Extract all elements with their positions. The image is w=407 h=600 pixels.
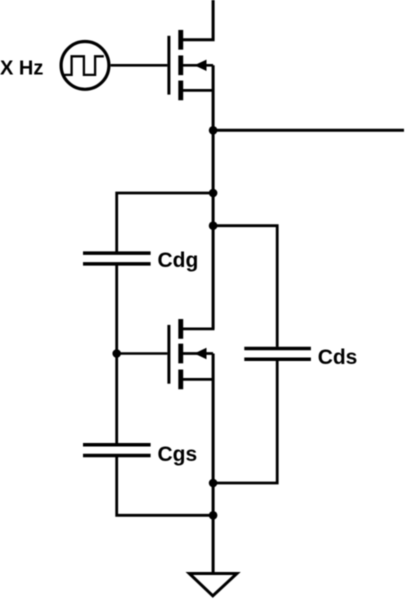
capacitor Cdg: [83, 253, 151, 264]
wire supply rail (top edge down to M1 drain corner): [181, 0, 213, 40]
ground: [189, 574, 237, 596]
node drain-Cdg junction: [209, 189, 218, 198]
wire Cdg bottom to Cgs top (left vertical): [115, 264, 118, 445]
node Cds-source junction: [209, 479, 218, 488]
node Cgs-source junction: [209, 511, 218, 520]
wire Cds bottom to source node: [213, 359, 277, 483]
wire Cgs bottom to source node: [117, 456, 213, 516]
capacitor Cgs: [83, 445, 151, 456]
wire right branch top (node to Cds top): [213, 226, 277, 347]
pulse source V1: [61, 42, 109, 90]
wire output node down to M2 drain: [212, 130, 215, 329]
node drain-Cds junction: [209, 221, 218, 230]
wire M2 source/body down to ground run: [212, 354, 215, 573]
svg-text:Cdg: Cdg: [158, 249, 199, 272]
transistor M1 (PMOS switch, 4-terminal): [169, 30, 215, 100]
node output (junction dot): [209, 126, 218, 135]
transistor M2 (NMOS under test, 4-terminal): [169, 319, 215, 389]
svg-text:X Hz: X Hz: [0, 58, 43, 80]
wire output to right edge: [213, 129, 404, 132]
wire gate junction to M2 gate: [117, 352, 168, 355]
wire M1 source down to output node: [212, 65, 215, 130]
wire V1 output to M1 gate: [111, 64, 168, 67]
svg-text:Cds: Cds: [318, 346, 358, 369]
wire left branch top (node to Cdg top): [117, 193, 213, 252]
node M2 gate junction: [112, 349, 121, 358]
capacitor Cds: [244, 349, 311, 360]
svg-text:Cgs: Cgs: [158, 443, 198, 466]
